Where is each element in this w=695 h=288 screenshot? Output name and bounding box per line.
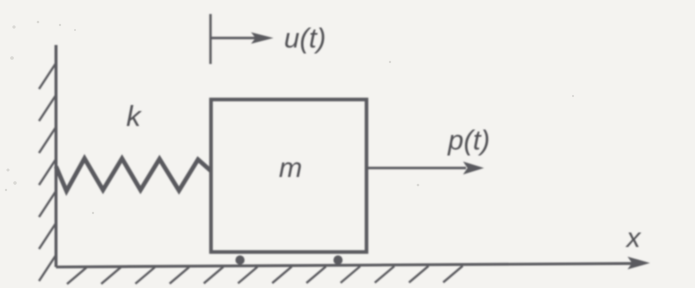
wall hatching <box>39 63 56 281</box>
ground line with x axis <box>56 263 641 267</box>
ground hatching <box>67 266 463 284</box>
svg-text:k: k <box>126 101 142 133</box>
scan speckles <box>5 21 574 215</box>
roller left <box>235 255 244 264</box>
u(t) reference tick <box>209 14 211 64</box>
u(t) arrow <box>212 37 259 39</box>
wall <box>55 45 58 267</box>
roller right <box>333 255 342 264</box>
svg-text:m: m <box>279 152 302 183</box>
svg-text:x: x <box>625 222 642 253</box>
spring k <box>56 159 211 192</box>
x axis arrowhead <box>628 257 651 270</box>
p(t) arrow <box>367 167 466 169</box>
svg-text:p(t): p(t) <box>447 125 490 156</box>
mass block m <box>211 100 367 253</box>
svg-text:u(t): u(t) <box>284 22 326 53</box>
